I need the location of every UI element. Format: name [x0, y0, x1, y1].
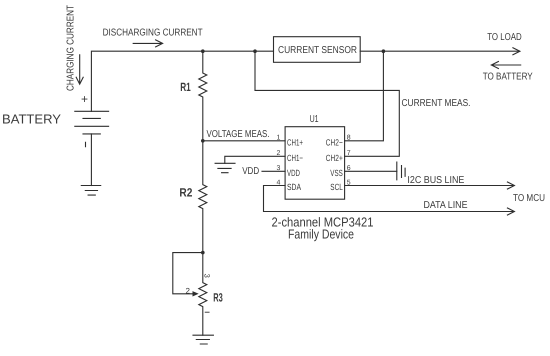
node junction dot R2 bottom: [201, 251, 205, 255]
arrow charging current: [76, 55, 83, 84]
node junction dot current-sensor input branch: [253, 49, 257, 53]
svg-text:BATTERY: BATTERY: [2, 111, 61, 126]
svg-text:R3: R3: [213, 290, 223, 304]
ground at VSS (sideways): [397, 162, 405, 180]
node junction dot voltage meas: [201, 139, 205, 143]
svg-text:VOLTAGE MEAS.: VOLTAGE MEAS.: [207, 129, 270, 140]
svg-text:VSS: VSS: [330, 168, 343, 178]
battery cell plates: [75, 111, 109, 134]
R3 terminal 1 mark: [205, 311, 209, 313]
svg-text:TO LOAD: TO LOAD: [487, 32, 522, 43]
arrow data line to mcu: [507, 208, 514, 215]
svg-text:CURRENT SENSOR: CURRENT SENSOR: [278, 45, 357, 56]
svg-text:TO BATTERY: TO BATTERY: [483, 71, 533, 82]
svg-text:3: 3: [203, 274, 212, 278]
resistor R1: [199, 51, 207, 141]
current sensor box: [274, 37, 361, 63]
svg-text:DISCHARGING CURRENT: DISCHARGING CURRENT: [103, 28, 203, 39]
wire VDD supply: [262, 170, 285, 172]
svg-text:2: 2: [276, 150, 280, 157]
ground below battery: [81, 186, 100, 196]
wire battery negative to ground: [90, 134, 92, 186]
ground below R3: [193, 335, 213, 344]
svg-text:TO MCU: TO MCU: [513, 193, 545, 204]
ground at CH1-: [215, 163, 235, 172]
wire voltage meas to CH1+: [203, 140, 285, 142]
svg-text:R1: R1: [180, 80, 191, 94]
svg-text:CH1+: CH1+: [287, 137, 303, 147]
svg-text:CH1−: CH1−: [287, 153, 303, 163]
chip U1 body: [285, 127, 345, 200]
svg-text:DATA LINE: DATA LINE: [424, 200, 468, 211]
wire main rail right of current sensor: [360, 50, 519, 52]
svg-text:4: 4: [276, 179, 280, 186]
svg-text:+: +: [81, 92, 88, 106]
svg-text:SDA: SDA: [287, 182, 301, 192]
svg-text:3: 3: [276, 165, 280, 172]
wire CH1- to ground: [225, 156, 285, 163]
svg-text:1: 1: [276, 135, 280, 142]
svg-text:SCL: SCL: [330, 182, 343, 192]
svg-text:Family Device: Family Device: [288, 227, 354, 242]
node junction dot R1 top: [201, 49, 205, 53]
svg-text:CURRENT MEAS.: CURRENT MEAS.: [402, 98, 471, 109]
wire battery positive to main rail: [91, 51, 273, 111]
svg-text:CHARGING CURRENT: CHARGING CURRENT: [66, 5, 77, 91]
wire CH2- to main rail: [345, 51, 384, 141]
wire R3 wiper bypass: [173, 253, 203, 294]
svg-text:U1: U1: [310, 114, 319, 125]
svg-text:VDD: VDD: [242, 166, 259, 177]
svg-text:8: 8: [347, 135, 351, 142]
svg-text:VDD: VDD: [287, 168, 300, 178]
battery minus mark: [85, 142, 87, 146]
svg-text:7: 7: [347, 150, 351, 157]
svg-text:5: 5: [347, 179, 351, 186]
svg-text:CH2+: CH2+: [326, 153, 343, 163]
potentiometer R3 body: [199, 253, 207, 336]
arrow to battery: [491, 62, 520, 69]
arrow discharging current: [133, 40, 162, 47]
arrow i2c bus to mcu: [507, 182, 514, 189]
svg-text:6: 6: [347, 165, 351, 172]
svg-text:I2C BUS LINE: I2C BUS LINE: [407, 175, 464, 186]
wire CH2+ to current sensor input: [255, 51, 399, 156]
wire SDA to data line: [264, 186, 514, 212]
wire SCL i2c bus line: [345, 185, 514, 187]
arrow to load: [513, 48, 520, 55]
R3 wiper arrow head: [193, 291, 199, 296]
resistor R2: [199, 141, 207, 253]
svg-text:2: 2: [186, 287, 191, 296]
node junction dot CH2- branch: [382, 49, 386, 53]
svg-text:R2: R2: [179, 185, 192, 199]
wire VSS to ground: [345, 170, 397, 172]
svg-text:CH2−: CH2−: [326, 137, 343, 147]
